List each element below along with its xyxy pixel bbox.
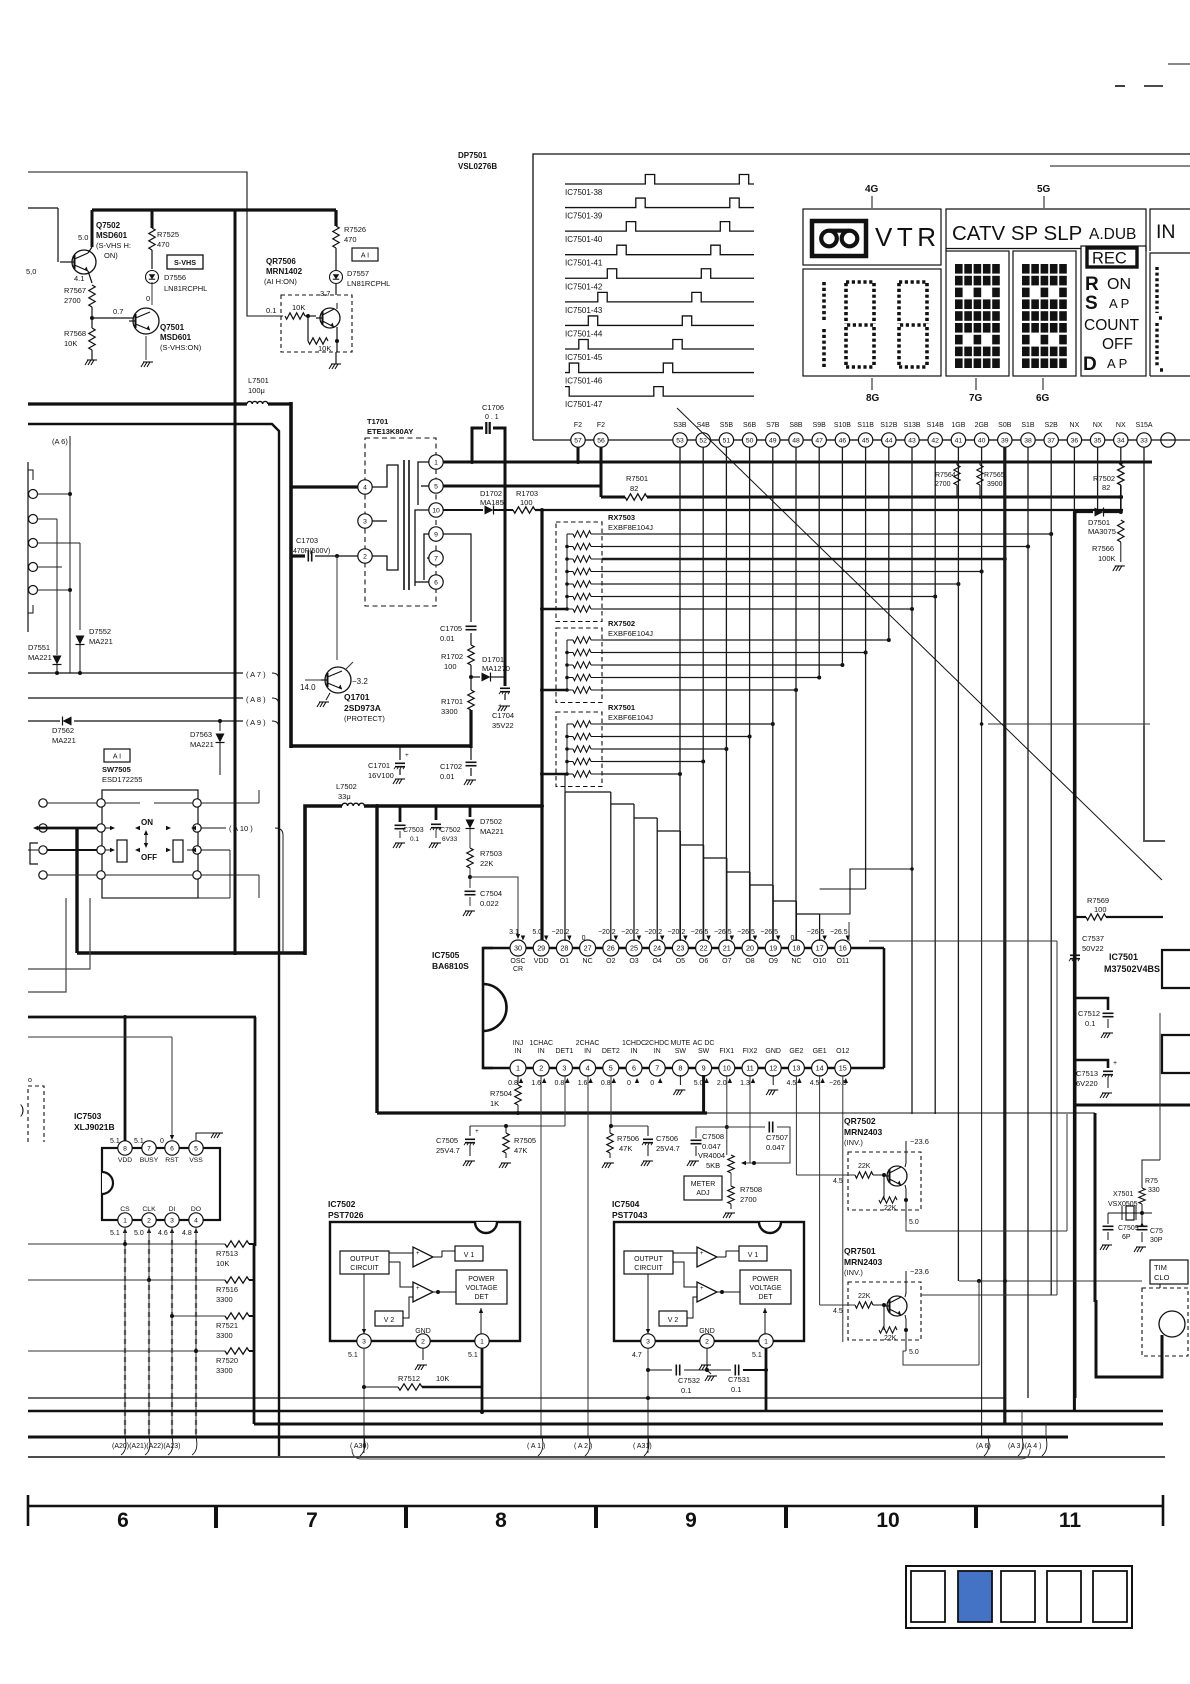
box IN matrix <box>1150 253 1190 376</box>
svg-text:ON: ON <box>141 818 153 827</box>
box 188 digits <box>803 269 941 376</box>
label Q1701 <box>344 692 385 723</box>
svg-text:3300: 3300 <box>216 1331 233 1340</box>
svg-text:2: 2 <box>539 1063 543 1072</box>
SW7505 contacts <box>97 799 201 879</box>
svg-text:5.1: 5.1 <box>110 1138 120 1145</box>
svg-text:IC7501-46: IC7501-46 <box>565 377 603 386</box>
svg-text:56: 56 <box>597 437 605 444</box>
svg-text:14.0: 14.0 <box>300 683 316 692</box>
svg-text:( A 9 ): ( A 9 ) <box>246 718 266 727</box>
wire vert x125 to IC7503 <box>123 1015 127 1141</box>
label A6 <box>52 436 70 447</box>
svg-text:38: 38 <box>1024 437 1032 444</box>
svg-text:6G: 6G <box>1036 393 1050 404</box>
svg-text:8: 8 <box>495 1509 507 1532</box>
wire column S15A pin33 <box>1143 447 1145 841</box>
wire R7526 branch drop <box>334 210 337 226</box>
box S-VHS <box>167 255 203 269</box>
value 3.7 QR7506 <box>320 289 330 298</box>
svg-text:OUTPUT: OUTPUT <box>350 1256 380 1263</box>
wire right horizontals y941 <box>869 940 1057 942</box>
svg-text:2SD973A: 2SD973A <box>344 703 381 713</box>
svg-text:4.5: 4.5 <box>810 1080 820 1087</box>
svg-text:V 1: V 1 <box>464 1252 475 1259</box>
digit 8 first <box>846 282 874 367</box>
svg-text:51: 51 <box>723 437 731 444</box>
svg-text:(A 3 )(A 4 ): (A 3 )(A 4 ) <box>1008 1443 1041 1450</box>
wire RX7502 row3 <box>602 663 844 667</box>
resistor R7525 <box>149 228 179 250</box>
pin T1701-9 <box>429 527 443 541</box>
svg-text:IC7501-39: IC7501-39 <box>565 212 603 221</box>
svg-text:D7563: D7563 <box>190 730 212 739</box>
wire VDD stub RX7501 <box>540 772 567 776</box>
svg-text:R7506: R7506 <box>617 1134 639 1143</box>
wire x505 down <box>470 460 507 675</box>
wire QR7501 out loop <box>903 1281 979 1365</box>
svg-text:28: 28 <box>560 943 568 952</box>
svg-text:1CHDC: 1CHDC <box>622 1040 646 1047</box>
wire rounded bus y424 <box>28 424 279 1456</box>
box AI sw <box>104 749 130 762</box>
svg-text:22K: 22K <box>884 1205 897 1212</box>
svg-text:11: 11 <box>746 1063 753 1072</box>
crystal X7501 <box>1108 1191 1152 1220</box>
svg-text:2: 2 <box>421 1338 425 1345</box>
svg-text:o: o <box>28 1077 32 1084</box>
IC7503 serial lines <box>125 1227 196 1437</box>
svg-text:10: 10 <box>723 1063 731 1072</box>
wire Q1701 collector <box>345 662 368 686</box>
wire x1095 thick <box>902 1113 1095 1302</box>
svg-text:0.8: 0.8 <box>601 1080 611 1087</box>
svg-text:1GB: 1GB <box>951 422 965 429</box>
svg-text:OFF: OFF <box>141 853 157 862</box>
svg-text:4.5: 4.5 <box>833 1308 843 1315</box>
svg-text:4.5: 4.5 <box>787 1080 797 1087</box>
wire column S0B pin39 <box>1003 447 1006 1424</box>
svg-text:100: 100 <box>520 498 533 507</box>
svg-text:470: 470 <box>157 240 170 249</box>
diode D7563 <box>190 721 225 775</box>
svg-text:C1702: C1702 <box>440 762 462 771</box>
svg-text:33: 33 <box>1140 437 1148 444</box>
svg-text:82: 82 <box>630 484 638 493</box>
text CATV SP SLP <box>952 222 1136 245</box>
wire IC7504 pin3 down <box>646 1348 650 1453</box>
svg-text:46: 46 <box>839 437 847 444</box>
svg-text:MA3075: MA3075 <box>1088 527 1116 536</box>
svg-text:MA221: MA221 <box>190 740 214 749</box>
wire bus y806 left <box>305 806 342 955</box>
svg-text:M37502V4BS: M37502V4BS <box>1104 964 1160 974</box>
wire left vert x70 <box>68 447 72 673</box>
svg-text:2GB: 2GB <box>975 422 989 429</box>
left edge connector stub1 <box>29 490 71 499</box>
svg-text:IC7501-45: IC7501-45 <box>565 353 603 362</box>
IC7503 top pins <box>118 1141 203 1164</box>
hook A2 <box>585 1437 590 1456</box>
svg-text:2: 2 <box>363 553 367 560</box>
svg-text:13: 13 <box>792 1063 800 1072</box>
svg-text:37: 37 <box>1047 437 1055 444</box>
inductor L7501 <box>247 376 269 404</box>
wire R7525 branch drop <box>151 210 154 228</box>
svg-text:Q7501: Q7501 <box>160 323 185 332</box>
svg-text:10K: 10K <box>216 1259 229 1268</box>
svg-text:DO: DO <box>191 1206 201 1213</box>
svg-text:R7568: R7568 <box>64 329 86 338</box>
svg-text:LN81RCPHL: LN81RCPHL <box>347 279 390 288</box>
wire A9 line <box>28 718 279 728</box>
svg-text:5,0: 5,0 <box>26 267 36 276</box>
svg-text:6: 6 <box>434 579 438 586</box>
resistor R7510-330 <box>1139 1178 1160 1215</box>
svg-text:GE1: GE1 <box>813 1048 827 1055</box>
svg-text:DI: DI <box>169 1206 176 1213</box>
wire pin5 thick bus y486 <box>443 485 601 488</box>
svg-text:+: + <box>1113 1060 1117 1067</box>
wire column NX pin35 <box>1097 447 1099 512</box>
capacitor C7503 <box>393 806 424 848</box>
pin T1701-4 <box>291 480 372 494</box>
wire bus y1411 <box>28 1410 1163 1412</box>
label DP7501 <box>458 151 497 171</box>
svg-text:5: 5 <box>609 1063 613 1072</box>
svg-text:R1701: R1701 <box>441 697 463 706</box>
svg-text:+: + <box>405 752 409 759</box>
wire y1126 left <box>470 1075 565 1128</box>
staircase steps <box>565 792 820 914</box>
svg-text:AC DC: AC DC <box>693 1040 715 1047</box>
resistor R7504 <box>490 1075 521 1115</box>
box matrix2 <box>1013 251 1076 376</box>
svg-text:ON: ON <box>1107 276 1131 293</box>
svg-text:S12B: S12B <box>880 422 897 429</box>
ruler number 6 <box>117 1509 129 1532</box>
ruler number 9 <box>685 1509 697 1532</box>
svg-text:METER: METER <box>691 1181 716 1188</box>
capacitor C7508 <box>687 1127 727 1166</box>
svg-text:5: 5 <box>434 483 438 490</box>
label 5G <box>1037 184 1051 208</box>
resistor network RX7501 <box>556 703 653 787</box>
wire bus y1437 thick <box>28 1436 1068 1439</box>
svg-text:+: + <box>416 1251 420 1257</box>
svg-text:A P: A P <box>1109 296 1129 311</box>
capacitor C1706 <box>472 403 505 462</box>
svg-text:A I: A I <box>113 754 121 761</box>
svg-text:C7504: C7504 <box>480 889 502 898</box>
wire sw row y803 <box>47 790 259 803</box>
wire column S6B pin50 <box>749 447 751 941</box>
capacitor C7513 <box>1075 1060 1117 1098</box>
wire pin1 thick bus y462 <box>443 461 1152 464</box>
svg-text:−3.2: −3.2 <box>352 677 368 686</box>
svg-text:RX7501: RX7501 <box>608 703 635 712</box>
wire thick bus y404 <box>28 402 247 405</box>
svg-text:R7564: R7564 <box>935 472 956 479</box>
svg-text:( A30): ( A30) <box>350 1443 369 1450</box>
hook A31 <box>644 1437 649 1456</box>
svg-text:29: 29 <box>537 943 545 952</box>
box VTR <box>803 209 941 265</box>
svg-text:S3B: S3B <box>673 422 687 429</box>
svg-text:DET: DET <box>759 1294 774 1301</box>
svg-text:R7520: R7520 <box>216 1356 238 1365</box>
svg-text:GND: GND <box>765 1048 781 1055</box>
svg-text:R7526: R7526 <box>344 225 366 234</box>
wire pin57 drop <box>576 447 580 464</box>
resistor R7568 <box>64 328 95 350</box>
text OFF <box>1102 336 1133 353</box>
svg-text:MA221: MA221 <box>480 827 504 836</box>
svg-text:RX7503: RX7503 <box>608 513 635 522</box>
svg-text:4: 4 <box>194 1217 198 1224</box>
svg-text:S: S <box>1085 293 1098 314</box>
wire RX7501 row1 <box>602 722 775 726</box>
svg-text:30P: 30P <box>1150 1237 1163 1244</box>
svg-text:R7513: R7513 <box>216 1249 238 1258</box>
IC7503 vss gnd <box>196 1133 223 1140</box>
waveform IC7501-43 <box>565 292 754 315</box>
wire RX7503 row3 <box>602 557 1007 561</box>
svg-text:TIM: TIM <box>1154 1263 1167 1272</box>
transistor block QR7502 <box>833 1116 929 1226</box>
svg-text:4.5: 4.5 <box>833 1178 843 1185</box>
svg-text:0 . 1: 0 . 1 <box>485 414 499 421</box>
wire thick y1105 <box>1075 1104 1190 1107</box>
svg-text:3300: 3300 <box>216 1366 233 1375</box>
wire vr to r7508 <box>730 1173 732 1186</box>
box QR7506 dashed <box>281 295 352 352</box>
svg-text:S9B: S9B <box>813 422 827 429</box>
thick box bottom right <box>1096 1300 1162 1377</box>
waveform IC7501-41 <box>565 245 754 267</box>
svg-text:0.1: 0.1 <box>1085 1019 1095 1028</box>
text IN <box>1156 221 1176 243</box>
svg-text:22K: 22K <box>858 1163 871 1170</box>
resistor R7565 <box>977 462 1005 499</box>
wire thick x255 down <box>254 1017 257 1246</box>
svg-text:O2: O2 <box>606 958 615 965</box>
wire RX7502 row4 <box>602 676 821 680</box>
svg-text:8: 8 <box>123 1145 127 1152</box>
wire RX7501 row2 <box>602 735 752 739</box>
svg-text:BA6810S: BA6810S <box>432 961 469 971</box>
nav outer box <box>906 1566 1132 1628</box>
svg-text:R7569: R7569 <box>1087 896 1109 905</box>
IC7505 bottom pins <box>510 1040 851 1076</box>
svg-text:+: + <box>700 1251 704 1257</box>
svg-text:POWER: POWER <box>752 1276 778 1283</box>
transformer secondary winding <box>415 462 429 586</box>
svg-text:O3: O3 <box>629 958 638 965</box>
svg-text:10: 10 <box>876 1509 899 1532</box>
svg-text:−: − <box>700 1297 704 1303</box>
capacitor C1703 <box>291 536 358 562</box>
left edge connector stub5 <box>29 586 71 595</box>
svg-text:0.8: 0.8 <box>555 1080 565 1087</box>
left edge connector stub2 <box>29 515 58 656</box>
wire column NX pin36 <box>1073 447 1075 512</box>
wire RX7501 row4 <box>602 760 705 764</box>
svg-text:25: 25 <box>630 943 638 952</box>
svg-text:C7513: C7513 <box>1076 1069 1098 1078</box>
wire column S10B pin46 <box>841 447 843 665</box>
resistor R7520 <box>28 1348 254 1375</box>
svg-text:IN: IN <box>631 1048 638 1055</box>
left switch contacts <box>39 799 47 879</box>
svg-text:(PROTECT): (PROTECT) <box>344 714 385 723</box>
svg-text:R7512: R7512 <box>398 1374 420 1383</box>
svg-text:INJ: INJ <box>513 1040 524 1047</box>
svg-text:(AI H:ON): (AI H:ON) <box>264 277 297 286</box>
wire IC7502 pin3 down <box>362 1348 366 1453</box>
value 0 under D7556 <box>146 294 150 303</box>
svg-text:C1703: C1703 <box>296 536 318 545</box>
wire RX7502 row2 <box>602 651 868 655</box>
svg-text:18: 18 <box>792 943 800 952</box>
wire column S8B pin48 <box>795 447 797 941</box>
svg-text:DET2: DET2 <box>602 1048 620 1055</box>
svg-text:330: 330 <box>1148 1187 1160 1194</box>
wire thick bus y1113 <box>377 1111 902 1114</box>
svg-text:R: R <box>1085 274 1099 295</box>
svg-text:VOLTAGE: VOLTAGE <box>465 1285 497 1292</box>
hook A3 <box>1018 1411 1023 1456</box>
svg-text:R7501: R7501 <box>626 474 648 483</box>
svg-text:47K: 47K <box>514 1146 527 1155</box>
svg-text:COUNT: COUNT <box>1084 317 1140 334</box>
line panel right notch <box>1050 165 1190 167</box>
diode D7552 <box>76 627 113 675</box>
resistor R7505 <box>499 1126 536 1168</box>
svg-text:R7516: R7516 <box>216 1285 238 1294</box>
wire bus y806 right <box>364 804 544 808</box>
svg-text:IC7501-38: IC7501-38 <box>565 188 603 197</box>
inductor L7502 <box>336 782 364 806</box>
capacitor C1705 <box>440 624 477 645</box>
wire r7503 junction <box>468 868 472 888</box>
svg-text:6: 6 <box>170 1145 174 1152</box>
svg-text:O1: O1 <box>560 958 569 965</box>
svg-text:C75: C75 <box>1150 1228 1163 1235</box>
svg-text:VTR: VTR <box>875 222 941 252</box>
box SW7505 <box>102 790 198 898</box>
wire bus y1424 thick <box>254 1423 1163 1426</box>
box METER ADJ <box>684 1176 722 1200</box>
value 5.0 Q7502 emitter <box>78 233 88 242</box>
svg-text:VDD: VDD <box>118 1157 132 1164</box>
svg-text:( A 7 ): ( A 7 ) <box>246 670 266 679</box>
svg-text:10: 10 <box>432 507 440 514</box>
svg-text:C7502: C7502 <box>440 827 461 834</box>
wire RX7502 row5 <box>602 688 798 692</box>
svg-text:4: 4 <box>586 1063 590 1072</box>
wire RX7503 row7 <box>602 607 914 611</box>
svg-text:100: 100 <box>444 662 457 671</box>
box IN panel <box>1150 209 1190 251</box>
wire IC7504 pin1 down <box>765 1348 768 1412</box>
svg-text:A I: A I <box>361 253 369 260</box>
svg-text:O7: O7 <box>722 958 731 965</box>
svg-text:CIRCUIT: CIRCUIT <box>350 1265 379 1272</box>
svg-text:IC7505: IC7505 <box>432 950 460 960</box>
label IC7505 <box>432 950 469 971</box>
svg-text:V 2: V 2 <box>384 1317 395 1324</box>
SW7505 arrows <box>110 826 196 852</box>
svg-text:R7565: R7565 <box>984 472 1005 479</box>
waveform IC7501-38 <box>565 175 754 198</box>
svg-text:2.0: 2.0 <box>717 1080 727 1087</box>
svg-text:2: 2 <box>705 1338 709 1345</box>
svg-text:50: 50 <box>746 437 754 444</box>
svg-text:LN81RCPHL: LN81RCPHL <box>164 284 207 293</box>
diode D7556 LED <box>146 250 208 293</box>
capacitor C1704 <box>492 675 514 730</box>
svg-text:CATV SP SLP: CATV SP SLP <box>952 222 1082 245</box>
svg-text:D1702: D1702 <box>480 489 502 498</box>
wire r1702-d1701 <box>469 665 473 690</box>
svg-text:(S-VHS:ON): (S-VHS:ON) <box>160 343 202 352</box>
svg-text:−26.5: −26.5 <box>829 1080 847 1087</box>
svg-text:Q1701: Q1701 <box>344 692 370 702</box>
svg-text:R7505: R7505 <box>514 1136 536 1145</box>
SW7505 ON OFF <box>141 818 157 862</box>
svg-text:S-VHS: S-VHS <box>174 258 196 267</box>
left edge connector stub4 <box>29 563 63 572</box>
svg-text:MRN1402: MRN1402 <box>266 267 303 276</box>
svg-text:MA221: MA221 <box>89 637 113 646</box>
svg-text:20: 20 <box>746 943 754 952</box>
capacitor C7512 <box>1075 998 1114 1038</box>
svg-text:SW: SW <box>675 1048 687 1055</box>
box TIMER CLOCK <box>1150 1260 1188 1284</box>
IC7505 top pins <box>510 940 851 973</box>
svg-text:57: 57 <box>574 437 582 444</box>
svg-text:0.047: 0.047 <box>766 1143 785 1152</box>
svg-text:8G: 8G <box>866 393 880 404</box>
wire NX col thick <box>1073 512 1076 1411</box>
svg-text:OFF: OFF <box>1102 336 1133 353</box>
svg-text:7: 7 <box>655 1063 659 1072</box>
wire VDD stub RX7502 <box>540 688 567 692</box>
svg-text:C7537: C7537 <box>1082 934 1104 943</box>
svg-text:S15A: S15A <box>1135 422 1152 429</box>
svg-text:RX7502: RX7502 <box>608 619 635 628</box>
svg-text:C7531: C7531 <box>728 1375 750 1384</box>
svg-text:QR7502: QR7502 <box>844 1116 876 1126</box>
svg-text:MRN2403: MRN2403 <box>844 1127 883 1137</box>
svg-text:D7551: D7551 <box>28 643 50 652</box>
wire column S11B pin45 <box>865 447 867 889</box>
svg-text:S10B: S10B <box>834 422 851 429</box>
wire Q7502 collector drop <box>91 210 94 247</box>
svg-text:14: 14 <box>816 1063 824 1072</box>
svg-text:V 2: V 2 <box>668 1317 679 1324</box>
svg-text:25V4.7: 25V4.7 <box>436 1146 460 1155</box>
svg-text:O12: O12 <box>836 1048 849 1055</box>
svg-text:0.1: 0.1 <box>681 1386 691 1395</box>
label Q7501 <box>160 323 202 352</box>
svg-text:0.1: 0.1 <box>266 306 276 315</box>
text S AP <box>1085 293 1129 314</box>
text R ON <box>1085 274 1131 295</box>
wire d7502-r7503 <box>469 829 471 848</box>
wire pin10 <box>443 509 483 511</box>
